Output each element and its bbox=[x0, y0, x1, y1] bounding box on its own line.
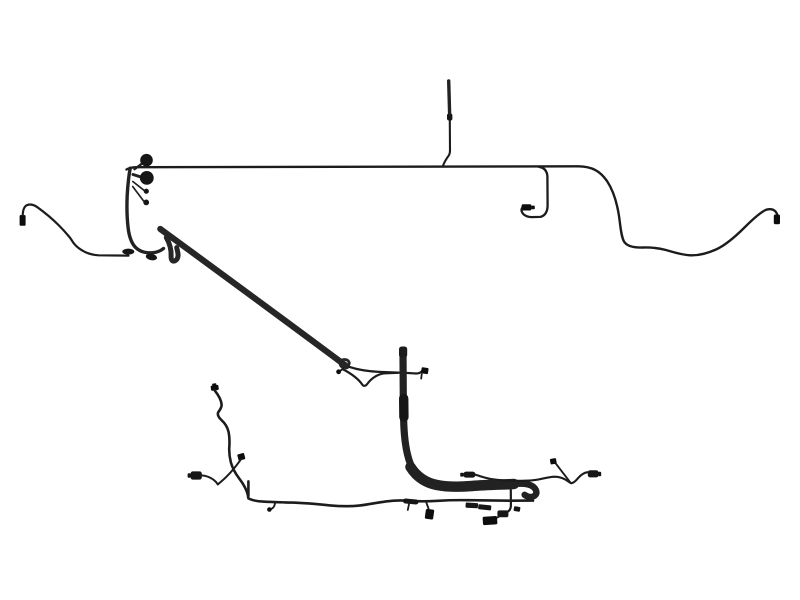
fan stem 4 bbox=[133, 187, 144, 202]
connector junction square bbox=[421, 367, 429, 374]
thick tube J end bbox=[514, 484, 536, 497]
connector cluster foot bbox=[122, 249, 134, 255]
connector drop rect bbox=[483, 516, 498, 525]
fan stem 2 bbox=[133, 175, 142, 178]
connector right barrel bbox=[588, 470, 601, 477]
antenna blade bbox=[447, 81, 451, 113]
connector right end barrel bbox=[774, 215, 780, 225]
wire inline stub bbox=[408, 504, 409, 510]
wire drop stub bbox=[492, 517, 499, 520]
tape wrap 2 bbox=[478, 504, 491, 510]
wire junction stub left bbox=[340, 368, 344, 371]
thick tube vertical and bend bbox=[403, 353, 413, 469]
wire junction run A bbox=[349, 367, 422, 374]
connector V left barrel bbox=[188, 471, 202, 479]
cluster main stem bbox=[127, 168, 164, 253]
wire branch hook drop bbox=[522, 167, 548, 217]
thick tube top cap bbox=[399, 347, 407, 358]
wire main top harness run bbox=[127, 166, 778, 255]
connector barrel on tube bbox=[460, 472, 475, 478]
wire junction run B dip bbox=[343, 369, 399, 386]
wire small hook drop bbox=[271, 503, 275, 509]
connector square right cluster bbox=[550, 458, 557, 465]
connector junction stub blob bbox=[336, 369, 341, 374]
wire antenna lead bbox=[443, 119, 450, 166]
connector under stem bbox=[145, 253, 157, 262]
wire bottom main run bbox=[249, 499, 533, 507]
wire hanging connector lead bbox=[426, 503, 428, 509]
thick tube horizontal run bbox=[411, 467, 515, 487]
thick harness end curl bbox=[340, 359, 349, 366]
knob K4 bbox=[143, 200, 149, 206]
fan stem 1 bbox=[135, 163, 144, 170]
connector hanging rect bbox=[425, 509, 435, 520]
connector drop barrel bbox=[497, 510, 508, 517]
wire branch to square connector bbox=[556, 463, 571, 483]
connector small right rect bbox=[513, 506, 520, 512]
grommet G1 bbox=[140, 154, 153, 167]
wire left lead bbox=[23, 205, 129, 256]
connector bottom-left top square bbox=[210, 383, 219, 391]
fan stem 3 bbox=[133, 182, 144, 191]
grommet G2 bbox=[140, 171, 154, 185]
thick harness fold knot bbox=[166, 238, 178, 262]
connector V right square bbox=[237, 453, 245, 461]
wire junction tail bbox=[420, 374, 423, 379]
tape wrap 1 bbox=[465, 502, 478, 508]
wire corner stub bbox=[247, 481, 250, 496]
connector hook barrel bbox=[522, 204, 535, 210]
thick harness diagonal bbox=[160, 229, 346, 366]
wire V right arm bbox=[218, 460, 241, 485]
connector small hook blob bbox=[267, 507, 272, 512]
antenna joint sleeve bbox=[447, 114, 452, 121]
connector left end barrel bbox=[20, 215, 26, 226]
wire V left arm bbox=[202, 475, 218, 484]
knob K3 bbox=[144, 189, 149, 194]
wire along tube top bbox=[475, 472, 588, 483]
connector inline segment bbox=[406, 501, 417, 502]
thick tube sleeve bbox=[399, 399, 409, 418]
wire bottom-left wiggly drop bbox=[215, 391, 249, 499]
wire vertical drop at 511 bbox=[500, 490, 511, 514]
